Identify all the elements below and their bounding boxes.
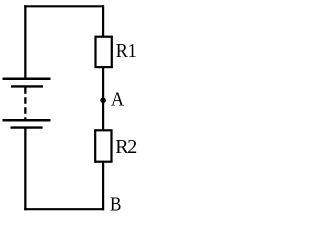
svg-text:B: B (110, 194, 121, 216)
wire: top horizontal (24, 5, 104, 7)
wire: right vertical lower (R2 to bottom) (102, 162, 104, 211)
battery cell 1: long plate (+) (3, 77, 51, 80)
wire: bottom horizontal (24, 208, 104, 210)
battery cell 2: short plate (-) (11, 126, 43, 128)
svg-text:A: A (111, 88, 125, 110)
wire: left vertical lower (battery - to bottom) (24, 128, 26, 211)
battery cell 2: long plate (+) (3, 119, 51, 122)
svg-text:R1: R1 (116, 40, 137, 62)
node A junction dot (100, 98, 106, 104)
resistor R2 (95, 130, 111, 161)
wire: right vertical upper (top to R1) (102, 5, 104, 36)
battery cell 1: short plate (-) (11, 85, 43, 87)
resistor R1 (96, 37, 112, 67)
wire: right vertical middle (R1 to R2 through node A) (102, 67, 104, 130)
wire: dashed link between battery cells (24, 87, 26, 119)
wire: left vertical upper (battery + to top) (24, 5, 26, 79)
svg-text:R2: R2 (115, 136, 136, 158)
